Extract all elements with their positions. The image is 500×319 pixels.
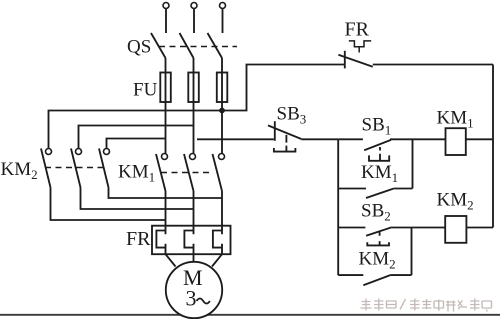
relay contact FR NC blade xyxy=(338,55,372,67)
wire FR to motor right xyxy=(212,254,222,266)
relay contact FR thermal symbol xyxy=(349,41,371,53)
svg-text:FU: FU xyxy=(133,80,158,101)
wire control phase2 tap to SB3 xyxy=(197,138,274,140)
wire SB1 to KM1 coil xyxy=(390,138,446,140)
coil KM1 xyxy=(446,128,466,155)
wire KM2 pole3 to KM1 pole3 xyxy=(109,188,223,199)
wire FR to motor middle xyxy=(193,254,195,261)
bottom border line xyxy=(0,314,500,316)
contact KM1 aux blade xyxy=(366,189,393,198)
QS linkage dashed xyxy=(159,46,237,48)
pushbutton SB1 blade xyxy=(364,140,391,150)
wire L2 stem xyxy=(193,9,195,34)
KM2 linkage dashed xyxy=(45,167,107,169)
wire KM2 pole1 feed from L3 xyxy=(49,111,223,149)
pushbutton SB2 actuator stem xyxy=(379,232,381,245)
wire SB2 to KM2 coil xyxy=(392,227,445,229)
pushbutton SB1 button cap xyxy=(369,155,389,160)
KM2 pole1 terminal xyxy=(46,149,52,155)
KM1 pole1 blade xyxy=(156,154,166,191)
FR heater element phase2 xyxy=(184,226,193,255)
KM1 pole2 blade xyxy=(184,154,194,191)
pushbutton SB1 actuator stem xyxy=(379,147,381,161)
wire KM2 pole3 feed from L1 xyxy=(107,139,166,149)
pushbutton SB2 blade xyxy=(366,227,392,236)
svg-text:3: 3 xyxy=(186,286,197,311)
contact KM2 aux blade xyxy=(363,275,390,285)
thermal relay FR box xyxy=(152,226,231,255)
wire KM1 pole3 to FR heater xyxy=(221,191,223,226)
switch QS pole 1 blade xyxy=(151,33,166,58)
wire KM1 aux to coil row xyxy=(412,139,414,188)
contact KM2 aux wire left xyxy=(338,274,363,276)
svg-text:FR: FR xyxy=(126,228,151,250)
wire KM2 pole1 to KM1 pole1 xyxy=(51,188,166,221)
pushbutton SB3 button cap xyxy=(274,148,296,152)
contact KM1 aux wire right xyxy=(393,188,412,190)
KM2 pole1 blade xyxy=(41,149,51,188)
fuse FU 1 xyxy=(160,73,171,103)
KM1 pole2 terminal xyxy=(190,154,196,160)
switch QS pole 2 blade xyxy=(180,33,194,58)
wire KM2 coil to rail xyxy=(466,227,493,229)
wire node to SB1 xyxy=(338,138,363,140)
wire FR to motor left xyxy=(166,254,176,266)
wire KM1 pole2 to FR heater xyxy=(193,191,195,226)
wire KM2 aux to coil row xyxy=(411,228,413,276)
terminal L1 xyxy=(163,3,169,9)
switch QS pole 3 blade xyxy=(208,33,223,58)
KM2 pole2 terminal xyxy=(76,149,82,155)
KM2 pole3 terminal xyxy=(104,149,110,155)
wire control feed from junction to FR contact xyxy=(222,65,345,111)
right rail xyxy=(492,65,494,228)
wire phase3 through fuse FU3 xyxy=(221,58,223,154)
pushbutton SB3 NC terminal tick xyxy=(274,121,276,141)
svg-text:QS: QS xyxy=(127,37,151,58)
motor M circle xyxy=(166,262,222,318)
fuse FU 3 xyxy=(217,73,228,103)
FR heater element phase3 xyxy=(213,226,222,255)
fuse FU 2 xyxy=(188,73,199,103)
FR heater element phase1 xyxy=(156,226,165,255)
KM2 pole2 blade xyxy=(71,149,81,188)
wire L3 stem xyxy=(222,9,224,34)
wire node to SB2 xyxy=(338,227,365,229)
relay contact FR NC terminal tick xyxy=(344,51,346,69)
wire SB3 to node xyxy=(301,138,338,140)
motor tilde xyxy=(197,299,210,304)
pushbutton SB3 blade xyxy=(268,125,301,139)
svg-text:FR: FR xyxy=(345,19,370,41)
wire KM1 coil to rail xyxy=(466,138,493,140)
pushbutton SB2 button cap xyxy=(367,242,389,245)
wire KM1 pole1 to FR heater xyxy=(165,191,167,226)
wire phase1 through fuse FU1 xyxy=(165,58,167,154)
terminal L2 xyxy=(191,3,197,9)
wire FR contact to rail xyxy=(373,64,493,66)
coil KM2 xyxy=(445,216,466,243)
wire control left branch vertical xyxy=(337,139,339,275)
contact KM2 aux wire right xyxy=(390,274,411,276)
junction dot L3 control tap xyxy=(219,108,225,114)
wire KM2 pole2 feed from L2 xyxy=(79,126,194,150)
watermark toutiao xyxy=(361,299,492,312)
contact KM1 aux wire left xyxy=(338,188,366,190)
KM1 pole1 terminal xyxy=(162,154,168,160)
wire phase2 through fuse FU2 xyxy=(193,58,195,154)
KM1 pole3 terminal xyxy=(219,154,225,160)
terminal L3 xyxy=(220,3,226,9)
pushbutton SB3 actuator stem xyxy=(285,135,287,152)
KM2 pole3 blade xyxy=(99,149,109,188)
KM1 linkage dashed xyxy=(161,172,212,174)
wire L1 stem xyxy=(165,9,167,34)
wire KM2 pole2 to KM1 pole2 xyxy=(81,188,194,210)
KM1 pole3 blade xyxy=(213,154,223,191)
